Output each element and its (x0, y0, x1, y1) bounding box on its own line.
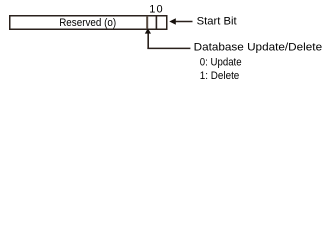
arrow bit1 head (up) (145, 28, 151, 33)
arrow bit1 vertical line (147, 34, 149, 49)
svg-text:Database Update/Delete: Database Update/Delete (194, 42, 323, 54)
svg-text:Reserved (o): Reserved (o) (59, 17, 116, 29)
arrow Start Bit head (169, 18, 176, 25)
svg-text:1: 1 (149, 4, 155, 16)
svg-text:1: Delete: 1: Delete (200, 70, 240, 82)
arrow Start Bit line (176, 21, 193, 23)
field box Reserved (10, 16, 167, 30)
svg-text:Start Bit: Start Bit (197, 16, 237, 28)
svg-text:0: Update: 0: Update (200, 57, 242, 69)
bit cell divider (bit 1) (146, 16, 148, 29)
svg-text:0: 0 (157, 4, 163, 16)
bit cell divider (bit 0) (155, 16, 157, 29)
arrow bit1 horizontal line (147, 47, 190, 49)
